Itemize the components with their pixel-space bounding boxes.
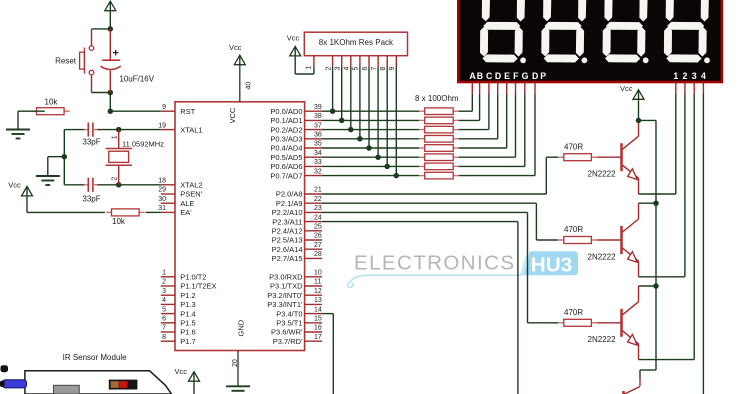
svg-text:17: 17 (314, 334, 322, 341)
svg-text:2N2222: 2N2222 (588, 170, 617, 179)
svg-text:P3.0/RXD: P3.0/RXD (269, 273, 303, 282)
svg-text:2: 2 (682, 71, 687, 81)
svg-text:2: 2 (112, 177, 119, 181)
svg-text:GND: GND (237, 319, 246, 336)
svg-text:38: 38 (314, 113, 322, 120)
svg-text:8 x 100Ohm: 8 x 100Ohm (415, 94, 459, 103)
svg-text:ALE: ALE (180, 199, 194, 208)
svg-text:G: G (522, 71, 529, 81)
svg-text:25: 25 (314, 224, 322, 231)
svg-text:P: P (540, 71, 546, 81)
svg-text:1: 1 (673, 71, 678, 81)
svg-text:P1.2: P1.2 (180, 291, 195, 300)
svg-text:1: 1 (112, 135, 119, 139)
svg-text:P0.5/AD5: P0.5/AD5 (270, 153, 302, 162)
svg-text:P2.6/A14: P2.6/A14 (272, 245, 303, 254)
svg-text:VCC: VCC (228, 107, 237, 123)
svg-text:XTAL1: XTAL1 (180, 125, 202, 134)
svg-text:Vcc: Vcc (620, 84, 633, 93)
svg-text:11.0592MHz: 11.0592MHz (122, 139, 164, 148)
svg-text:10k: 10k (112, 217, 126, 226)
svg-text:32: 32 (314, 168, 322, 175)
svg-text:P1.5: P1.5 (180, 319, 195, 328)
svg-text:2: 2 (162, 279, 166, 286)
svg-text:4: 4 (344, 67, 351, 71)
svg-text:30: 30 (158, 196, 166, 203)
svg-text:P1.6: P1.6 (180, 328, 195, 337)
svg-text:Vcc: Vcc (175, 367, 188, 376)
svg-text:40: 40 (246, 82, 253, 90)
svg-text:4: 4 (701, 71, 706, 81)
svg-text:21: 21 (314, 187, 322, 194)
svg-text:35: 35 (314, 141, 322, 148)
svg-text:Reset: Reset (55, 57, 77, 66)
svg-text:1: 1 (306, 66, 313, 70)
svg-text:PSEN': PSEN' (180, 190, 202, 199)
svg-text:RST: RST (180, 107, 195, 116)
svg-text:2: 2 (325, 67, 332, 71)
svg-text:+: + (113, 48, 119, 60)
svg-text:7: 7 (371, 67, 378, 71)
svg-text:P0.1/AD1: P0.1/AD1 (270, 116, 302, 125)
svg-text:24: 24 (314, 214, 322, 221)
svg-text:14: 14 (314, 306, 322, 313)
svg-text:P1.0/T2: P1.0/T2 (180, 273, 206, 282)
svg-text:16: 16 (314, 325, 322, 332)
svg-text:39: 39 (314, 104, 322, 111)
svg-text:22: 22 (314, 196, 322, 203)
svg-text:P1.3: P1.3 (180, 300, 195, 309)
svg-text:470R: 470R (564, 142, 583, 151)
svg-text:470R: 470R (564, 308, 583, 317)
svg-text:A: A (469, 71, 476, 81)
svg-text:7: 7 (162, 325, 166, 332)
svg-text:9: 9 (162, 104, 166, 111)
svg-text:11: 11 (314, 279, 321, 286)
svg-text:3: 3 (162, 288, 166, 295)
svg-text:34: 34 (314, 150, 322, 157)
svg-text:D: D (495, 71, 501, 81)
svg-text:HU3: HU3 (531, 253, 573, 276)
svg-text:C: C (486, 71, 493, 81)
svg-text:P1.1/T2EX: P1.1/T2EX (180, 282, 216, 291)
svg-text:P3.6/WR': P3.6/WR' (271, 328, 303, 337)
svg-text:29: 29 (158, 187, 166, 194)
svg-text:2N2222: 2N2222 (588, 335, 617, 344)
svg-text:P3.2/INT0': P3.2/INT0' (267, 291, 303, 300)
svg-text:P0.2/AD2: P0.2/AD2 (270, 125, 302, 134)
svg-text:P0.6/AD6: P0.6/AD6 (270, 162, 302, 171)
svg-text:10uF/16V: 10uF/16V (119, 75, 154, 84)
svg-text:P2.1/A9: P2.1/A9 (276, 199, 303, 208)
svg-text:28: 28 (314, 251, 322, 258)
svg-text:P0.0/AD0: P0.0/AD0 (270, 107, 302, 116)
svg-text:6: 6 (162, 316, 166, 323)
svg-text:3: 3 (692, 71, 697, 81)
svg-text:Vcc: Vcc (229, 43, 242, 52)
svg-text:P2.0/A8: P2.0/A8 (276, 190, 303, 199)
svg-text:P2.4/A12: P2.4/A12 (272, 227, 303, 236)
svg-text:P2.2/A10: P2.2/A10 (272, 208, 303, 217)
svg-text:Vcc: Vcc (8, 181, 21, 190)
svg-text:ELECTRONICS: ELECTRONICS (354, 252, 514, 275)
svg-text:5: 5 (353, 67, 360, 71)
svg-text:9: 9 (389, 67, 396, 71)
svg-text:33pF: 33pF (82, 194, 100, 203)
svg-text:P1.7: P1.7 (180, 337, 195, 346)
svg-text:20: 20 (232, 359, 239, 367)
svg-text:P0.7/AD7: P0.7/AD7 (270, 171, 302, 180)
svg-text:P2.3/A11: P2.3/A11 (272, 217, 302, 226)
svg-text:27: 27 (314, 242, 322, 249)
svg-text:33: 33 (314, 159, 322, 166)
svg-text:470R: 470R (564, 225, 583, 234)
svg-text:8: 8 (380, 67, 387, 71)
svg-text:31: 31 (158, 205, 166, 212)
svg-text:2N2222: 2N2222 (588, 252, 617, 261)
svg-text:IR Sensor Module: IR Sensor Module (63, 353, 128, 362)
svg-text:F: F (513, 71, 519, 81)
svg-text:10: 10 (314, 270, 322, 277)
svg-text:13: 13 (314, 297, 322, 304)
svg-text:P3.5/T1: P3.5/T1 (276, 319, 302, 328)
svg-text:Vcc: Vcc (287, 34, 300, 43)
svg-text:26: 26 (314, 233, 322, 240)
svg-text:XTAL2: XTAL2 (180, 181, 202, 190)
svg-text:P3.1/TXD: P3.1/TXD (270, 282, 303, 291)
svg-text:8: 8 (162, 334, 166, 341)
svg-text:4: 4 (162, 297, 166, 304)
svg-text:P3.3/INT1': P3.3/INT1' (267, 300, 303, 309)
svg-text:P0.4/AD4: P0.4/AD4 (270, 144, 302, 153)
svg-text:12: 12 (314, 288, 322, 295)
svg-text:E: E (504, 71, 510, 81)
svg-text:23: 23 (314, 205, 322, 212)
svg-text:D: D (532, 71, 538, 81)
svg-text:5: 5 (162, 306, 166, 313)
svg-text:36: 36 (314, 132, 322, 139)
svg-text:3: 3 (335, 67, 342, 71)
svg-text:33pF: 33pF (82, 138, 100, 147)
svg-text:P3.7/RD': P3.7/RD' (273, 337, 303, 346)
svg-text:8x 1KOhm Res Pack: 8x 1KOhm Res Pack (319, 38, 394, 47)
svg-text:P2.7/A15: P2.7/A15 (272, 254, 303, 263)
svg-text:P2.5/A13: P2.5/A13 (272, 236, 303, 245)
svg-text:18: 18 (158, 178, 166, 185)
svg-text:P1.4: P1.4 (180, 309, 195, 318)
svg-text:6: 6 (362, 67, 369, 71)
svg-text:37: 37 (314, 122, 322, 129)
svg-text:EA': EA' (180, 208, 192, 217)
svg-text:P0.3/AD3: P0.3/AD3 (270, 135, 302, 144)
svg-text:B: B (477, 71, 483, 81)
svg-text:P3.4/T0: P3.4/T0 (276, 309, 302, 318)
svg-text:19: 19 (158, 122, 166, 129)
svg-text:1: 1 (162, 270, 166, 277)
svg-text:15: 15 (314, 316, 322, 323)
svg-text:10k: 10k (45, 97, 59, 106)
